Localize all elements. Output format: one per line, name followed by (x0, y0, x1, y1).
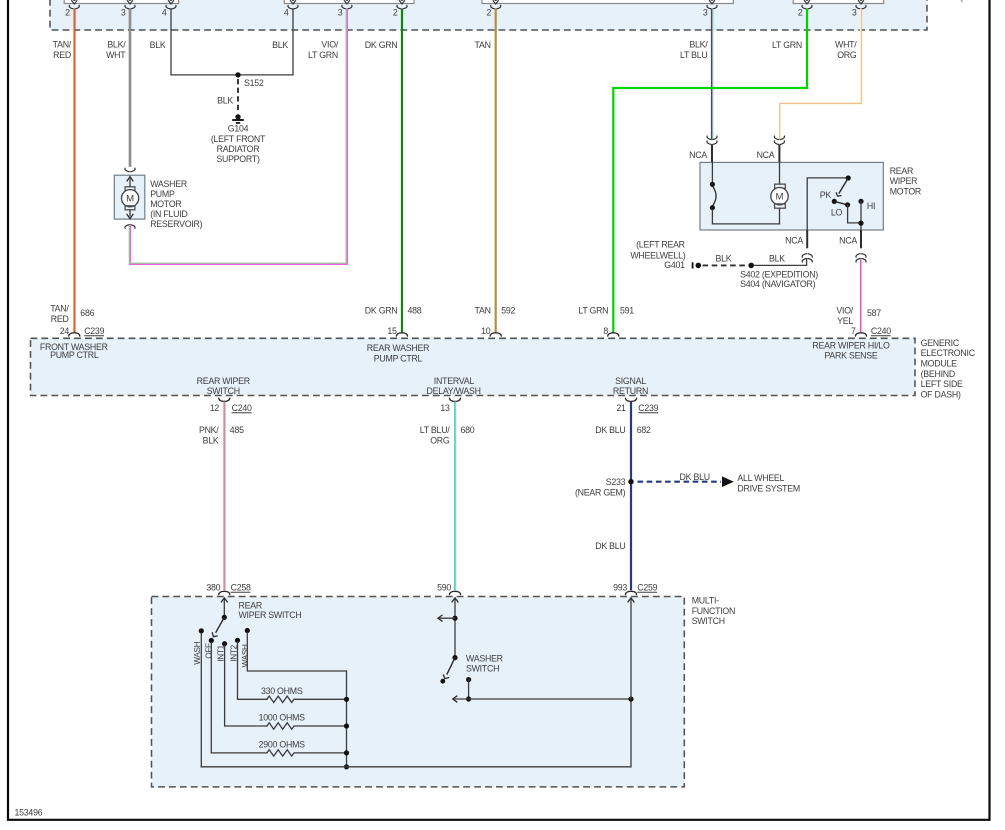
wire LO/HI junction to motor bottom pin (848, 201, 861, 230)
svg-text:MULTI-: MULTI- (692, 596, 719, 606)
svg-text:G401: G401 (664, 260, 685, 270)
svg-text:(NEAR GEM): (NEAR GEM) (575, 487, 626, 497)
svg-text:587: 587 (867, 308, 881, 318)
wire BLK S402 to motor park sense pin (754, 259, 807, 265)
svg-text:BLK/: BLK/ (107, 40, 126, 50)
GEM pin 7 (855, 333, 866, 336)
contact WASH (left) (199, 628, 204, 633)
svg-text:21: 21 (616, 403, 626, 413)
svg-text:DK BLU: DK BLU (595, 541, 625, 551)
svg-text:ALL WHEEL: ALL WHEEL (737, 473, 784, 483)
svg-text:MOTOR: MOTOR (150, 199, 181, 209)
pin 2 of connector 4 (798, 0, 812, 18)
junction 993 riser / washer output (628, 696, 633, 701)
svg-text:S152: S152 (244, 78, 264, 88)
pin 4 of connector 2 (284, 0, 298, 18)
svg-text:DELAY/WASH: DELAY/WASH (426, 386, 480, 396)
svg-text:(LEFT FRONT: (LEFT FRONT (211, 134, 266, 144)
ground G401 (693, 262, 702, 268)
svg-text:592: 592 (501, 306, 515, 316)
svg-text:REAR WIPER HI/LO: REAR WIPER HI/LO (812, 340, 890, 350)
rear wiper switch arm (216, 617, 225, 632)
svg-text:BLK: BLK (272, 40, 288, 50)
contact LO (845, 202, 850, 207)
connector id C259 (637, 582, 657, 592)
svg-text:2: 2 (393, 8, 398, 18)
svg-text:PUMP: PUMP (150, 189, 175, 199)
svg-text:WASHER: WASHER (150, 179, 187, 189)
connector id C239 lower (638, 403, 658, 413)
svg-text:REAR WASHER: REAR WASHER (367, 343, 429, 353)
MFS pin 993 (625, 591, 636, 594)
svg-text:WIPER SWITCH: WIPER SWITCH (239, 610, 302, 620)
svg-text:M: M (126, 194, 134, 205)
wire OFF to 2900 ohms (211, 643, 267, 753)
svg-text:591: 591 (620, 306, 634, 316)
svg-text:3: 3 (121, 8, 126, 18)
svg-text:3: 3 (703, 8, 708, 18)
resistor 1000 OHMS (267, 723, 347, 729)
inline connector NCA (right, above motor) (774, 136, 784, 144)
svg-text:153496: 153496 (15, 808, 43, 818)
resistor 2900 OHMS (267, 750, 347, 756)
washer switch pivot (452, 655, 457, 660)
washer output line with left arrow (453, 696, 631, 703)
svg-text:HI: HI (867, 201, 875, 211)
pin 2 of connector 3 (487, 0, 501, 18)
svg-text:686: 686 (80, 308, 94, 318)
top harness dashed box (light blue) (50, 0, 927, 30)
GEM pin 12 (219, 398, 230, 401)
rear wiper switch feed 380 (221, 598, 228, 620)
svg-text:LT BLU/: LT BLU/ (420, 425, 451, 435)
svg-text:WHT: WHT (106, 50, 126, 60)
bottom bus wire to 993 riser (201, 699, 631, 767)
connector box 1 (64, 0, 178, 4)
svg-text:YEL: YEL (837, 316, 853, 326)
svg-text:682: 682 (637, 425, 651, 435)
svg-text:SWITCH: SWITCH (466, 664, 499, 674)
svg-text:SIGNAL: SIGNAL (615, 376, 646, 386)
svg-text:13: 13 (440, 403, 450, 413)
connector id C240 (871, 326, 891, 336)
svg-text:S233: S233 (606, 477, 626, 487)
label multi-function switch (692, 596, 735, 626)
clipped text fragment top right (961, 0, 962, 2)
contact HI (858, 199, 863, 204)
svg-text:2: 2 (65, 8, 70, 18)
svg-text:BLK: BLK (716, 253, 732, 263)
wire WASH right to ladder bus (247, 633, 346, 767)
svg-text:LT GRN: LT GRN (308, 50, 338, 60)
connector curl below washer pump (125, 225, 135, 229)
svg-text:C239: C239 (84, 326, 104, 336)
svg-text:LEFT SIDE: LEFT SIDE (921, 379, 963, 389)
svg-text:ORG: ORG (837, 50, 857, 60)
svg-text:G104: G104 (228, 123, 249, 133)
svg-text:590: 590 (437, 582, 451, 592)
svg-text:NCA: NCA (839, 236, 857, 246)
wire PNK/BLK circuit 485 (GEM pin 12 to MFS pin 380) (223, 402, 226, 591)
wire LT BLU/ORG circuit 680 (GEM pin 13 to MFS pin 590) (454, 402, 457, 591)
svg-text:LO: LO (831, 208, 843, 218)
washer switch arm tip contact (440, 679, 445, 684)
svg-text:PUMP CTRL: PUMP CTRL (50, 350, 99, 360)
dashed BLK wire to ground (237, 79, 239, 114)
GEM module dashed box (31, 338, 916, 395)
svg-text:FUNCTION: FUNCTION (692, 606, 735, 616)
svg-text:VIO/: VIO/ (836, 306, 853, 316)
svg-text:ORG: ORG (430, 435, 450, 445)
svg-text:LT GRN: LT GRN (772, 40, 802, 50)
svg-text:3: 3 (852, 8, 857, 18)
svg-text:DRIVE SYSTEM: DRIVE SYSTEM (737, 483, 800, 493)
svg-text:MODULE: MODULE (921, 359, 958, 369)
connector id C240 lower (232, 403, 252, 413)
washer switch feed 590 (452, 598, 459, 656)
svg-text:RED: RED (51, 314, 69, 324)
svg-text:C259: C259 (637, 582, 657, 592)
wire INT1 to 1000 ohms (225, 646, 267, 726)
dashed BLK wire G401 to S402 (703, 264, 748, 266)
splice S152 (235, 72, 240, 77)
svg-text:DK BLU: DK BLU (595, 425, 625, 435)
svg-text:BLK: BLK (217, 95, 233, 105)
washer pump motor M symbol (122, 177, 139, 219)
svg-text:NCA: NCA (689, 150, 707, 160)
contact PK (832, 199, 837, 204)
contact OFF (209, 638, 214, 643)
label generic electronic module (921, 338, 976, 400)
svg-text:GENERIC: GENERIC (921, 338, 960, 348)
label rear wiper motor (890, 166, 921, 196)
contact INT1 (222, 641, 227, 646)
junction ladder bus 330 (344, 697, 349, 702)
MFS pin 590 (449, 591, 460, 594)
svg-text:NCA: NCA (757, 150, 775, 160)
wire VIO/LT GRN (washer pump to pin 3 conn2) (129, 9, 347, 264)
svg-text:488: 488 (408, 306, 422, 316)
connector id C239 (84, 326, 104, 336)
dashed DK BLU branch to all wheel drive (638, 481, 722, 483)
svg-text:WHEELWELL): WHEELWELL) (630, 250, 685, 260)
pin 4 of connector 1 (162, 0, 176, 18)
wire washer contact to output line (468, 680, 470, 699)
svg-text:WASH: WASH (241, 644, 250, 667)
svg-text:DK GRN: DK GRN (365, 306, 398, 316)
svg-text:SWITCH: SWITCH (207, 386, 240, 396)
svg-text:330 OHMS: 330 OHMS (261, 686, 303, 696)
wire WHT/ORG (pin 3 conn4 to rear wiper motor) (779, 9, 861, 139)
svg-text:SWITCH: SWITCH (692, 616, 725, 626)
svg-text:12: 12 (210, 403, 220, 413)
wire INT2 to 330 ohms (238, 642, 267, 699)
svg-text:VIO/: VIO/ (321, 40, 338, 50)
svg-text:C240: C240 (871, 326, 891, 336)
washer pump motor box (114, 175, 145, 219)
connector box 4 (793, 0, 884, 4)
svg-text:RESERVOIR): RESERVOIR) (150, 219, 202, 229)
svg-text:REAR WIPER: REAR WIPER (197, 376, 250, 386)
wire TAN circuit 592 (pin 2 conn3 to GEM pin 10) (495, 9, 497, 333)
svg-text:LT GRN: LT GRN (578, 306, 608, 316)
svg-text:4: 4 (162, 8, 167, 18)
svg-text:RED: RED (53, 50, 71, 60)
svg-text:15: 15 (387, 326, 397, 336)
svg-text:OF DASH): OF DASH) (921, 390, 961, 400)
MFS pin 380 (219, 591, 230, 594)
svg-text:BLK: BLK (769, 253, 785, 263)
inline connector NCA (left, above motor) (707, 136, 717, 144)
svg-text:(LEFT REAR: (LEFT REAR (636, 240, 685, 250)
svg-text:PNK/: PNK/ (199, 425, 219, 435)
svg-text:C239: C239 (638, 403, 658, 413)
GEM pin 8 (608, 333, 619, 336)
svg-text:C258: C258 (231, 582, 251, 592)
svg-text:2: 2 (487, 8, 492, 18)
contact INT2 (235, 638, 240, 643)
svg-text:PUMP CTRL: PUMP CTRL (374, 353, 423, 363)
svg-text:C240: C240 (232, 403, 252, 413)
junction ladder bus bottom (344, 764, 349, 769)
svg-text:10: 10 (481, 326, 491, 336)
svg-text:SUPPORT): SUPPORT) (216, 154, 260, 164)
svg-text:MOTOR: MOTOR (890, 186, 921, 196)
washer switch arm (447, 658, 455, 675)
wire DK BLU circuit 682 (GEM pin 21 to MFS pin 993) (630, 402, 632, 591)
svg-text:WIPER: WIPER (890, 176, 918, 186)
svg-text:PARK SENSE: PARK SENSE (824, 351, 877, 361)
selector arm with arrowhead (839, 178, 848, 194)
svg-text:WHT/: WHT/ (835, 40, 857, 50)
svg-text:3: 3 (338, 8, 343, 18)
svg-text:BLK: BLK (203, 435, 219, 445)
svg-text:485: 485 (230, 425, 244, 435)
svg-text:OFF: OFF (205, 643, 214, 659)
motor M symbol (rear wiper) (771, 162, 788, 224)
svg-text:RADIATOR: RADIATOR (217, 144, 260, 154)
svg-text:TAN: TAN (474, 306, 490, 316)
signal return feed 993 (628, 598, 635, 699)
svg-text:TAN/: TAN/ (50, 303, 69, 313)
hi/lo pin below motor (NCA) (860, 230, 862, 248)
svg-text:380: 380 (206, 582, 220, 592)
wire BLK/LT BLU (pin 3 conn3 to rear wiper motor) (711, 9, 714, 139)
label washer pump motor (150, 179, 202, 229)
arrow to all wheel drive system (722, 476, 734, 487)
connector box 2 (284, 0, 414, 4)
splice S402/S404 (748, 263, 754, 269)
svg-text:TAN/: TAN/ (53, 40, 72, 50)
svg-text:7: 7 (851, 326, 856, 336)
wire VIO/YEL circuit 587 (motor HI/LO pin to GEM pin 7) (860, 260, 863, 333)
svg-text:NCA: NCA (785, 236, 803, 246)
wire TAN/RED circuit 686 (pin 2 conn1 to GEM pin 24) (73, 9, 76, 333)
contact WASH (right) (245, 628, 250, 633)
junction ladder bus 2900 (344, 750, 349, 755)
pin 3 of connector 1 (121, 0, 135, 18)
wire BLK (pin 4 conn1 and pin 4 conn2 to splice S152) (171, 9, 293, 75)
pin 2 of connector 2 (393, 0, 407, 18)
junction ladder bus 1000 (344, 723, 349, 728)
GEM pin 21 (625, 398, 636, 401)
svg-text:(BEHIND: (BEHIND (921, 369, 955, 379)
washer switch contact (466, 677, 471, 682)
wire WASH left to bottom bus (200, 633, 202, 767)
svg-text:WASHER: WASHER (466, 653, 503, 663)
svg-text:ELECTRONIC: ELECTRONIC (921, 348, 976, 358)
wiper speed selector: common feed (807, 178, 846, 230)
svg-text:INTERVAL: INTERVAL (434, 376, 475, 386)
svg-text:RETURN: RETURN (613, 386, 648, 396)
ground G104 (232, 114, 244, 123)
GEM pin 24 (69, 333, 80, 336)
svg-text:BLK: BLK (150, 40, 166, 50)
washer switch rest contact arrow (438, 615, 455, 622)
svg-text:PK: PK (820, 190, 832, 200)
arm PK to LO (834, 201, 847, 204)
svg-text:M: M (776, 192, 784, 203)
connector box 3 (482, 0, 733, 4)
pin 2 of connector 1 (65, 0, 79, 18)
svg-text:WASH: WASH (193, 641, 202, 664)
park switch contact in motor (710, 162, 780, 224)
svg-text:680: 680 (461, 425, 475, 435)
svg-text:8: 8 (603, 326, 608, 336)
svg-text:BLK/: BLK/ (689, 40, 708, 50)
wire DK GRN circuit 488 (pin 2 conn2 to GEM pin 15) (401, 9, 403, 333)
wire LT GRN circuit 591 (pin 2 conn4 to GEM pin 8) (613, 9, 807, 333)
svg-text:993: 993 (613, 582, 627, 592)
svg-text:LT BLU: LT BLU (680, 50, 708, 60)
svg-text:(IN FLUID: (IN FLUID (150, 209, 187, 219)
svg-text:2900 OHMS: 2900 OHMS (259, 740, 306, 750)
svg-text:1000 OHMS: 1000 OHMS (259, 713, 306, 723)
GEM pin 15 (396, 333, 407, 336)
svg-text:2: 2 (798, 8, 803, 18)
svg-text:DK BLU: DK BLU (680, 472, 710, 482)
pin 3 of connector 3 (703, 0, 717, 18)
GEM pin 10 (490, 333, 501, 336)
pin 3 of connector 4 (852, 0, 866, 18)
svg-text:TAN: TAN (474, 40, 490, 50)
connector id C258 (231, 582, 251, 592)
svg-text:S404 (NAVIGATOR): S404 (NAVIGATOR) (740, 279, 816, 289)
svg-text:REAR: REAR (890, 166, 913, 176)
park sense pin below motor (NCA) (806, 230, 808, 248)
svg-text:24: 24 (60, 326, 70, 336)
svg-text:REAR: REAR (239, 600, 262, 610)
connector curl above washer pump (125, 168, 135, 172)
rear wiper motor box (700, 162, 883, 230)
pin 3 of connector 2 (338, 0, 352, 18)
svg-text:4: 4 (284, 8, 289, 18)
GEM pin 13 (449, 398, 460, 401)
splice S233 (628, 479, 633, 484)
wire BLK/WHT (pin 3 conn1 to washer pump) (129, 9, 131, 167)
multi-function switch dashed box (152, 597, 685, 787)
svg-text:DK GRN: DK GRN (365, 40, 398, 50)
resistor 330 OHMS (267, 696, 347, 702)
